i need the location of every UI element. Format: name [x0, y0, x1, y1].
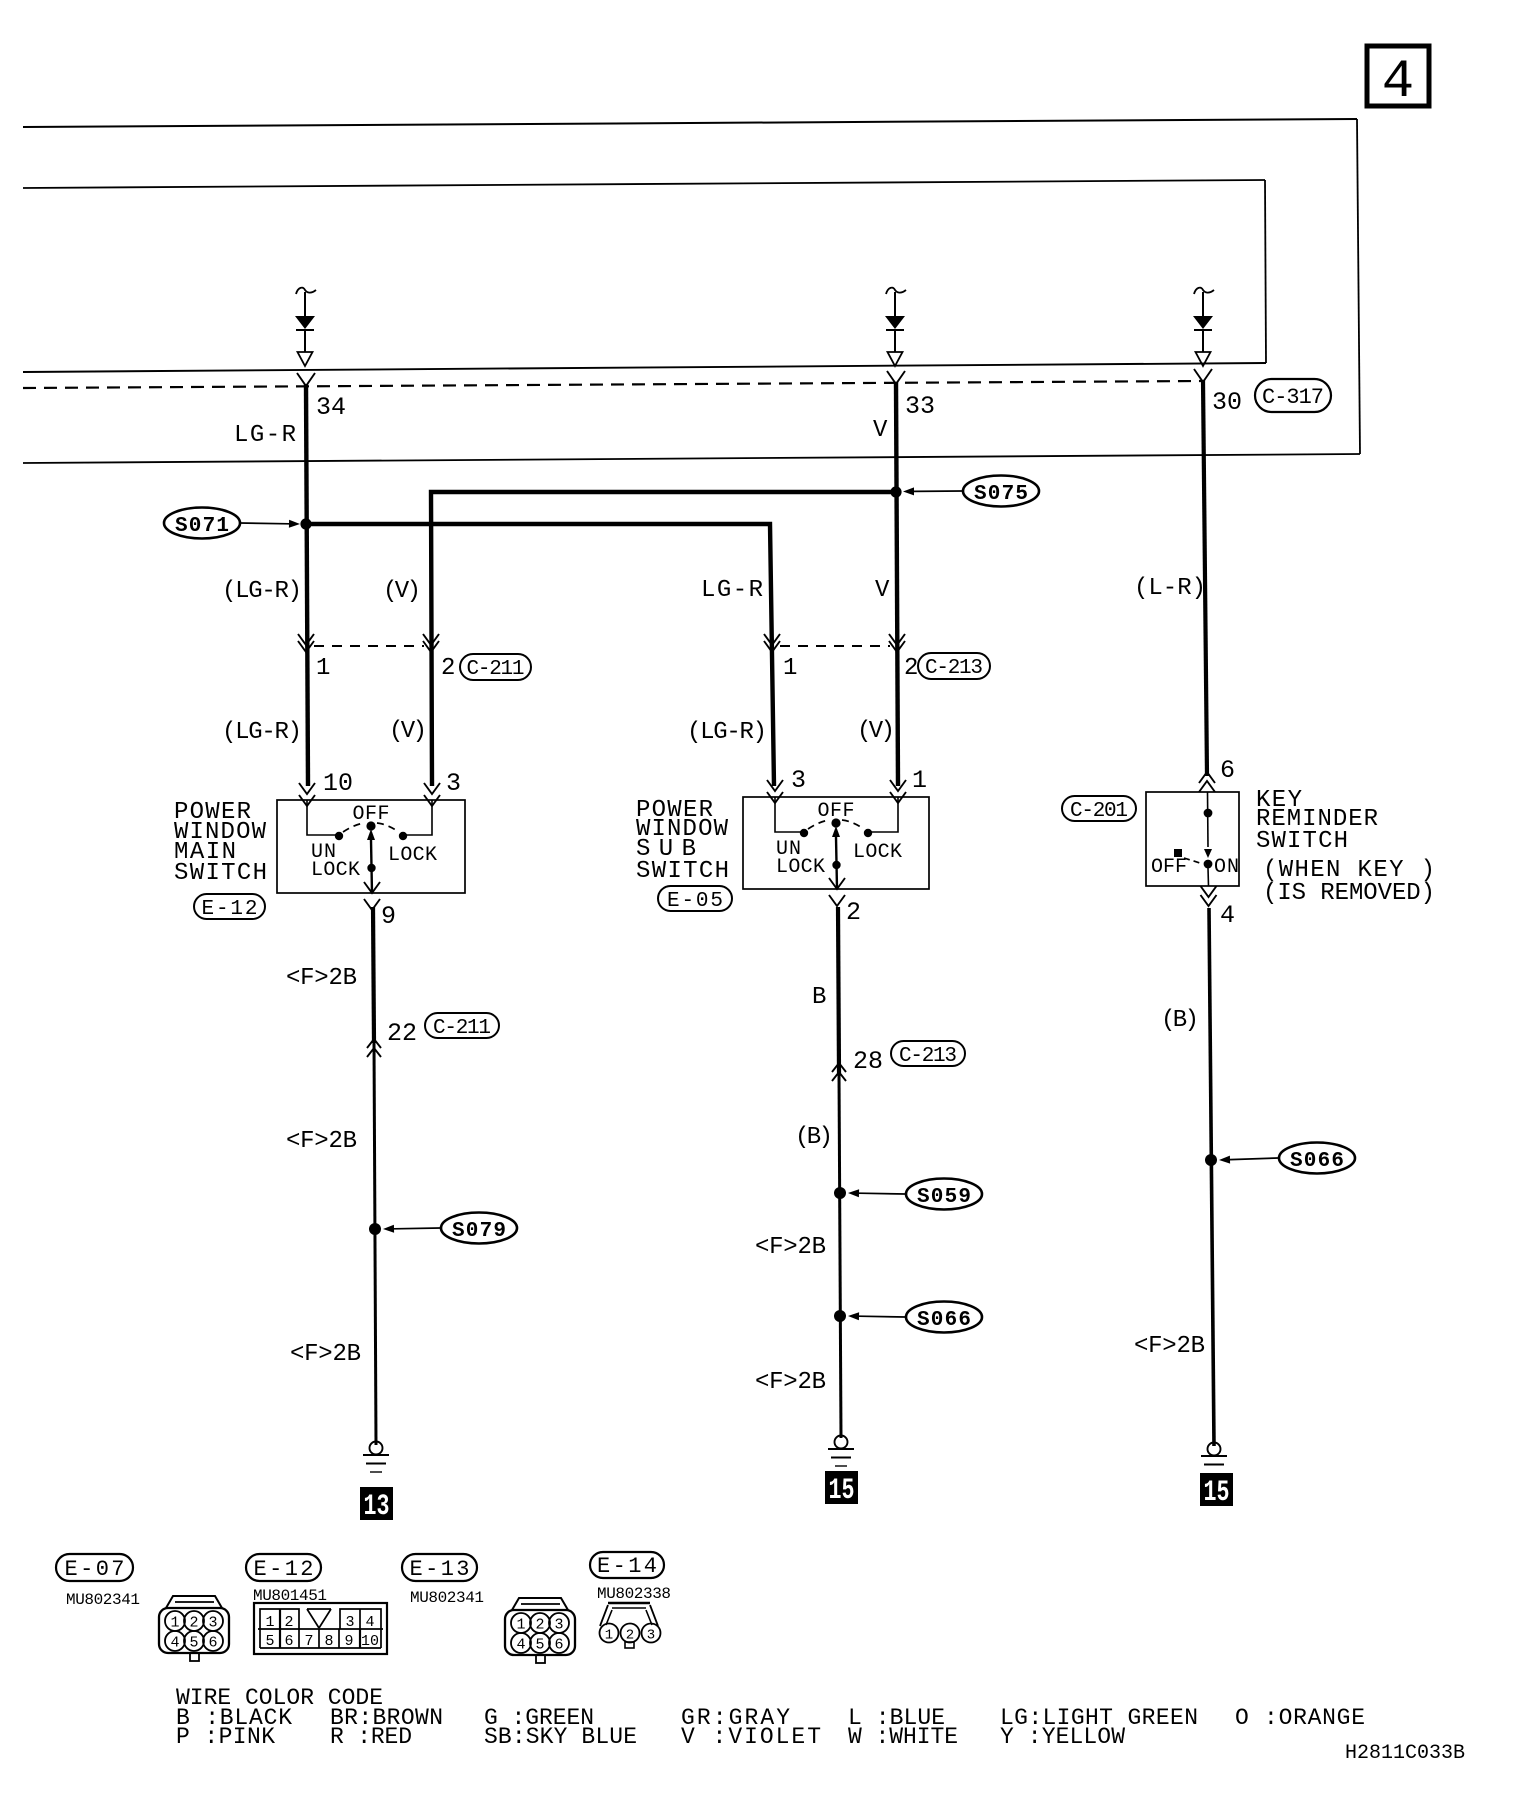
- svg-text:MU802341: MU802341: [66, 1591, 140, 1609]
- svg-text:(V): (V): [383, 578, 421, 605]
- connector C-317 dashed boundary line: [23, 381, 1204, 388]
- svg-text:1: 1: [783, 655, 797, 682]
- wire from C-213 pin 28 to ground (thin segment): [839, 1073, 841, 1438]
- svg-text:3: 3: [647, 1628, 655, 1644]
- svg-text:28: 28: [853, 1047, 883, 1076]
- sub switch connector label E-05: [658, 886, 732, 913]
- ground sheet number 13: [360, 1487, 393, 1524]
- power window sub switch name text: [636, 797, 729, 885]
- svg-text:S066: S066: [917, 1309, 971, 1332]
- svg-text:O :ORANGE: O :ORANGE: [1235, 1705, 1365, 1731]
- arrow from S075 label to junction: [903, 487, 962, 495]
- svg-text:<F>2B: <F>2B: [290, 1341, 361, 1368]
- svg-text:10: 10: [361, 1633, 379, 1650]
- pin 30 chevron: [1194, 369, 1212, 382]
- splice S059 junction dot: [834, 1187, 846, 1199]
- svg-text:5: 5: [535, 1637, 544, 1654]
- connector E-13 label: [402, 1554, 477, 1582]
- svg-text:2: 2: [535, 1617, 544, 1634]
- connector C-213 pin 1 chevrons: [764, 641, 780, 652]
- svg-text:<F>2B: <F>2B: [1134, 1333, 1205, 1360]
- connector C-211 label (lower): [425, 1013, 499, 1040]
- svg-text:SWITCH: SWITCH: [636, 858, 729, 885]
- power window sub switch (E-05) pin 1 entry chevrons: [890, 780, 906, 791]
- svg-text:(B): (B): [1161, 1007, 1199, 1034]
- svg-text:4: 4: [516, 1637, 525, 1654]
- svg-text:3: 3: [791, 766, 806, 795]
- pin 34 chevron: [297, 373, 315, 386]
- svg-text:LOCK: LOCK: [776, 856, 825, 879]
- svg-text:W :WHITE: W :WHITE: [848, 1724, 958, 1750]
- svg-text:3: 3: [446, 769, 461, 798]
- power window main switch (E-12) pin 3 entry chevrons: [424, 783, 440, 794]
- svg-text:SB:SKY BLUE: SB:SKY BLUE: [484, 1724, 637, 1750]
- svg-text:S066: S066: [1290, 1150, 1344, 1173]
- svg-text:H2811C033B: H2811C033B: [1345, 1742, 1465, 1765]
- power window main switch (E-12) box: [277, 800, 465, 893]
- wire color code legend: [176, 1685, 1365, 1750]
- connector E-14 label: [590, 1552, 664, 1579]
- power window sub switch (E-05) bottom pin 2 chevrons: [829, 878, 845, 889]
- arrow B (to pin 33) : page-continuation arrow with diode symbol: [885, 288, 906, 366]
- power window main switch (E-12) pin 10 entry chevrons: [299, 783, 315, 794]
- splice S066 (right) label: [1279, 1143, 1355, 1174]
- splice S075 junction dot: [890, 486, 901, 497]
- svg-text:MU802338: MU802338: [597, 1585, 671, 1603]
- key reminder switch box: [1146, 792, 1239, 886]
- connector E-12 10-pin face view: [254, 1603, 387, 1654]
- svg-text:15: 15: [1204, 1476, 1230, 1510]
- splice S075 label: [963, 476, 1039, 507]
- svg-text:C-213: C-213: [925, 657, 983, 680]
- svg-text:C-211: C-211: [467, 658, 525, 681]
- power window main switch name text: [174, 799, 267, 887]
- svg-text:<F>2B: <F>2B: [286, 1128, 357, 1155]
- svg-text:OFF: OFF: [818, 800, 855, 823]
- svg-text:6: 6: [284, 1633, 293, 1650]
- svg-text:S075: S075: [974, 483, 1028, 506]
- svg-text:V: V: [875, 577, 890, 604]
- bus outer box bottom line: [23, 454, 1360, 463]
- wire from main switch pin 9 down (thick segment): [373, 907, 374, 1043]
- pin 33 chevron: [887, 371, 905, 384]
- splice S079 label: [441, 1213, 517, 1244]
- arrow from S059 label to junction: [848, 1189, 905, 1197]
- power window main switch (E-12) bottom pin 9 chevrons: [364, 882, 380, 893]
- wire from sub switch pin 2 down (thick segment): [838, 907, 839, 1073]
- connector C-213 label (lower): [891, 1041, 965, 1068]
- svg-text:C-213: C-213: [899, 1045, 957, 1068]
- svg-text:S071: S071: [175, 515, 229, 538]
- svg-text:7: 7: [304, 1633, 313, 1650]
- ground sheet number 15: [825, 1471, 858, 1508]
- connector C-211 pin 22 crossing chevrons: [367, 1039, 381, 1048]
- svg-text:3: 3: [345, 1614, 354, 1631]
- key reminder switch bottom pin 4 chevrons: [1201, 886, 1217, 897]
- svg-text:6: 6: [208, 1635, 217, 1652]
- svg-text:5: 5: [265, 1633, 274, 1650]
- svg-text:22: 22: [387, 1019, 417, 1048]
- svg-text:15: 15: [829, 1474, 855, 1508]
- svg-text:P :PINK: P :PINK: [176, 1724, 275, 1750]
- connector C-211 pin 1 chevrons: [298, 641, 314, 652]
- svg-text:E-14: E-14: [597, 1554, 657, 1579]
- connector E-12 label: [246, 1554, 321, 1582]
- connector C-211 pin 2 chevrons: [423, 641, 439, 652]
- svg-text:(LG-R): (LG-R): [687, 719, 767, 746]
- key reminder switch internal contacts OFF/ON: [1151, 792, 1239, 886]
- svg-text:(B): (B): [795, 1124, 833, 1151]
- connector C-213 pin 2 chevrons: [889, 641, 905, 652]
- svg-text:6: 6: [1220, 756, 1235, 785]
- svg-text:30: 30: [1212, 388, 1242, 417]
- arrow from S079 label to junction: [383, 1225, 440, 1233]
- svg-text:4: 4: [1220, 901, 1235, 930]
- svg-text:OFF: OFF: [1151, 856, 1187, 879]
- arrow from S066 label to junction (right): [1219, 1156, 1278, 1164]
- connector E-07 label: [56, 1554, 133, 1582]
- svg-text:<F>2B: <F>2B: [755, 1369, 826, 1396]
- svg-text:13: 13: [364, 1490, 390, 1524]
- svg-text:<F>2B: <F>2B: [286, 965, 357, 992]
- svg-text:E-07: E-07: [65, 1557, 125, 1582]
- bus inner box right edge: [1265, 180, 1266, 363]
- svg-text:Y :YELLOW: Y :YELLOW: [1000, 1724, 1125, 1750]
- ground symbol (main switch branch): [363, 1442, 389, 1473]
- ground symbol (key reminder branch): [1201, 1443, 1227, 1465]
- svg-text:33: 33: [905, 392, 935, 421]
- key reminder switch name text: [1256, 787, 1435, 907]
- svg-text:4: 4: [365, 1614, 374, 1631]
- svg-text:6: 6: [554, 1637, 563, 1654]
- ground symbol (sub switch branch): [828, 1436, 854, 1467]
- svg-text:SWITCH: SWITCH: [174, 860, 267, 887]
- svg-text:V: V: [873, 417, 888, 444]
- bus inner box top line: [23, 180, 1265, 188]
- connector C-211 dashed link: [314, 645, 424, 647]
- connector C-211 label: [460, 654, 531, 681]
- splice S066 junction dot (middle branch): [834, 1310, 846, 1322]
- svg-text:34: 34: [316, 393, 346, 422]
- bus outer box top line: [23, 119, 1357, 127]
- svg-text:8: 8: [324, 1633, 333, 1650]
- svg-text:2: 2: [904, 655, 918, 682]
- svg-text:4: 4: [1382, 52, 1414, 113]
- svg-text:S059: S059: [917, 1186, 971, 1209]
- connector E-14 3-pin face view: [600, 1603, 661, 1648]
- wire LG-R branch: S071 to C-213 pin 1 (horizontal + vertical): [306, 524, 774, 786]
- connector C-213 label: [918, 653, 990, 680]
- svg-text:(LG-R): (LG-R): [222, 578, 302, 605]
- power window sub switch (E-05) internal contacts and OFF/UNLOCK/LOCK: [775, 797, 902, 889]
- svg-text:C-317: C-317: [1262, 385, 1324, 410]
- svg-text:9: 9: [381, 902, 396, 931]
- splice S079 junction dot: [369, 1223, 381, 1235]
- main switch connector label E-12: [194, 894, 265, 921]
- connector E-13 6-pin face view: [505, 1598, 575, 1663]
- svg-text:2: 2: [626, 1628, 634, 1644]
- key reminder switch pin 6 chevrons: [1199, 772, 1215, 783]
- svg-text:(V): (V): [389, 718, 427, 745]
- wire L-R from pin 30 down to key reminder switch pin 6: [1203, 380, 1207, 776]
- connector C-213 pin 28 crossing chevrons: [832, 1063, 846, 1072]
- svg-text:(L-R): (L-R): [1134, 575, 1206, 602]
- svg-text:LOCK: LOCK: [388, 844, 437, 867]
- svg-text:C-211: C-211: [433, 1017, 491, 1040]
- svg-text:LG-R: LG-R: [234, 422, 296, 449]
- svg-text:R :RED: R :RED: [330, 1724, 412, 1750]
- svg-text:(LG-R): (LG-R): [222, 719, 302, 746]
- svg-text:<F>2B: <F>2B: [755, 1234, 826, 1261]
- arrow A (to pin 34) : page-continuation arrow with diode symbol: [295, 288, 316, 366]
- svg-text:E-05: E-05: [667, 890, 723, 913]
- svg-text:V :VIOLET: V :VIOLET: [681, 1724, 821, 1750]
- svg-text:OFF: OFF: [353, 803, 390, 826]
- svg-text:S079: S079: [452, 1220, 506, 1243]
- page number box 4: [1367, 46, 1429, 113]
- wire V from pin 33 down to sub switch pin 1: [896, 382, 898, 786]
- power window sub switch (E-05) box: [743, 797, 929, 889]
- svg-text:B: B: [812, 984, 826, 1011]
- arrow from S066 label to junction: [848, 1312, 905, 1320]
- svg-text:SWITCH: SWITCH: [1256, 828, 1348, 855]
- splice S066 (middle) label: [906, 1302, 982, 1333]
- svg-text:1: 1: [170, 1615, 179, 1632]
- wire from C-211 pin 22 to ground (thin segment): [374, 1043, 376, 1445]
- svg-text:LG-R: LG-R: [701, 577, 763, 604]
- svg-text:10: 10: [323, 769, 353, 798]
- svg-text:1: 1: [316, 655, 330, 682]
- ground sheet number 15: [1200, 1473, 1233, 1510]
- svg-text:ON: ON: [1214, 856, 1239, 879]
- svg-text:9: 9: [344, 1633, 353, 1650]
- svg-text:3: 3: [554, 1617, 563, 1634]
- connector C-213 dashed link: [780, 645, 890, 647]
- svg-text:2: 2: [441, 655, 455, 682]
- svg-text:5: 5: [189, 1635, 198, 1652]
- svg-text:4: 4: [170, 1635, 179, 1652]
- bus outer box right edge: [1357, 119, 1360, 454]
- svg-text:2: 2: [189, 1615, 198, 1632]
- svg-text:E-13: E-13: [410, 1557, 470, 1582]
- svg-text:LOCK: LOCK: [853, 841, 902, 864]
- svg-text:LOCK: LOCK: [311, 859, 360, 882]
- svg-text:1: 1: [605, 1628, 613, 1644]
- wire LG-R from pin 34 down to main switch pin 10: [306, 384, 308, 786]
- svg-text:1: 1: [912, 766, 927, 795]
- power window sub switch (E-05) pin 3 entry chevrons: [767, 780, 783, 791]
- svg-text:(IS REMOVED): (IS REMOVED): [1263, 880, 1435, 907]
- svg-text:2: 2: [284, 1614, 293, 1631]
- svg-text:E-12: E-12: [202, 898, 258, 921]
- connector E-07 6-pin face view: [159, 1596, 229, 1661]
- arrow C (to pin 30) : page-continuation arrow with diode symbol: [1193, 288, 1214, 366]
- svg-text:(V): (V): [857, 718, 895, 745]
- svg-text:2: 2: [846, 898, 861, 927]
- splice S066 junction dot (right branch): [1205, 1154, 1217, 1166]
- arrow from S071 label to junction: [240, 520, 300, 528]
- wire from key reminder switch pin 4 to ground: [1209, 908, 1214, 1446]
- splice S059 label: [906, 1179, 982, 1210]
- connector C-201 label: [1062, 796, 1136, 823]
- svg-text:E-12: E-12: [254, 1557, 314, 1582]
- splice S071 junction dot: [300, 518, 311, 529]
- svg-text:1: 1: [516, 1617, 525, 1634]
- connector C-317 label: [1255, 379, 1331, 412]
- svg-text:1: 1: [265, 1614, 274, 1631]
- svg-text:C-201: C-201: [1070, 800, 1128, 823]
- svg-text:MU802341: MU802341: [410, 1589, 484, 1607]
- wire V branch: S075 to C-211 pin 2 (horizontal + vertical): [431, 492, 896, 786]
- svg-text:3: 3: [208, 1615, 217, 1632]
- splice S071 label: [164, 508, 240, 539]
- connector C-317 solid boundary line: [23, 363, 1266, 372]
- power window main switch (E-12) internal contacts and OFF/UNLOCK/LOCK: [307, 800, 437, 893]
